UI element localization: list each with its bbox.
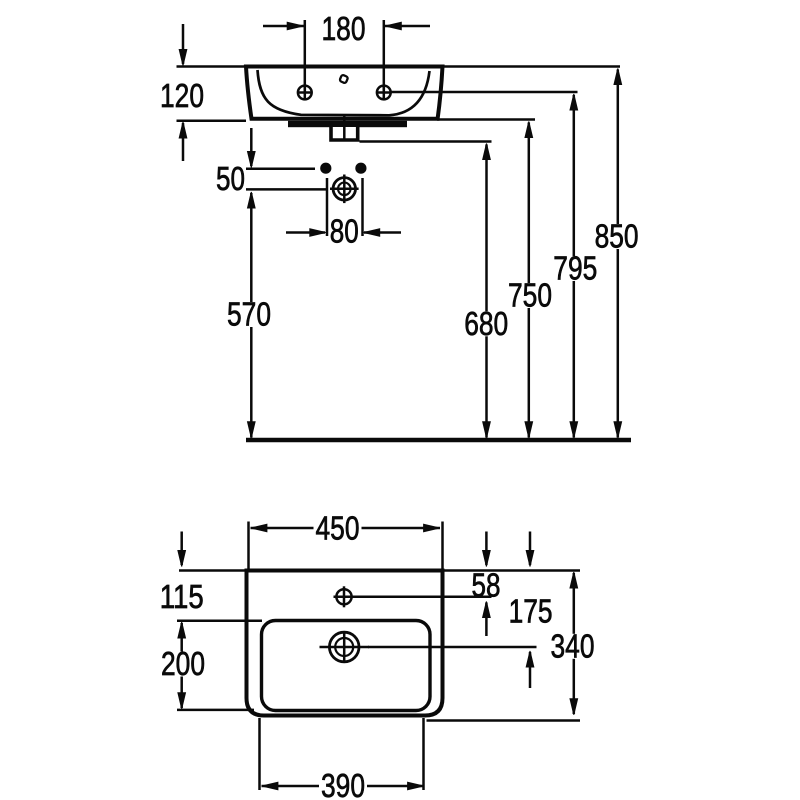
dim 80 label [330,212,359,249]
svg-text:58: 58 [472,566,501,603]
right fixing bolt hole [355,163,366,174]
dim 680 line [483,144,491,438]
dim 750 line [525,122,533,438]
waste drain symbol plan view [320,632,370,664]
svg-text:680: 680 [464,305,508,342]
dim 115 arrow [178,532,186,567]
dim 120 arrow top [179,24,187,66]
dim 180 label [322,10,366,47]
dim 175 arrow top [526,532,534,567]
dim 120 arrow bottom [179,122,187,161]
svg-text:340: 340 [551,627,595,664]
dim 850 extension line [443,65,621,68]
overflow hole [339,75,348,84]
svg-text:390: 390 [321,767,365,800]
dim 58 label [472,566,501,603]
faucet hole plan view [334,586,355,607]
left fixing bolt hole [320,163,331,174]
dim 680 label [462,305,510,342]
dim 50 arrow top [248,128,256,168]
dim 175 arrow bottom [526,651,534,688]
dim 450 extension line left [247,522,250,571]
dim 850 label [593,218,641,255]
waste drain symbol front view [330,175,359,204]
dim 50 extension line top [246,167,315,170]
dim 120 extension line bottom [177,120,247,123]
svg-text:50: 50 [216,160,245,197]
drain outlet box [331,127,358,140]
svg-text:570: 570 [227,296,271,333]
svg-text:795: 795 [553,250,597,287]
drain centre extension line [368,646,537,649]
dim 58 arrow bottom [483,602,491,637]
plan view inner basin outline [262,621,431,711]
svg-text:180: 180 [322,10,366,47]
dim 115 label [160,578,204,615]
dim 750 extension line [437,118,535,121]
dim 750 label [506,277,554,314]
dim 795 line [570,94,578,438]
dim 180 extension line left [304,20,307,90]
floor line [246,438,631,443]
washbasin inner bowl curve [258,70,430,115]
dim 390 extension line right [422,718,425,790]
right tap mounting hole [376,85,391,101]
dim 200 label [159,645,207,682]
washbasin front view outer body [246,67,443,119]
svg-text:115: 115 [160,578,204,615]
dim 680 extension line [360,140,492,143]
svg-text:450: 450 [316,510,360,547]
dim 390 extension line left [258,718,261,790]
top edge extension left [179,569,247,572]
dim 570 label [225,296,273,333]
svg-text:750: 750 [508,277,552,314]
svg-text:175: 175 [509,592,553,629]
dim 180 arrow right [385,22,430,30]
dim 80 arrow left [286,229,326,237]
svg-text:850: 850 [595,218,639,255]
dim 570 line [248,192,256,438]
dim 175 label [509,592,553,629]
bottom edge extension right [427,719,581,722]
outlet centre line [343,114,346,140]
inner bottom extension left [177,709,254,712]
svg-text:200: 200 [161,645,205,682]
dim 795 extension line [391,91,578,94]
dim 390 label [319,767,367,800]
dim 58 arrow top [483,532,491,567]
dim 340 line [570,572,578,715]
dim 200 line [178,622,186,709]
dim 50 label [216,160,245,197]
dim 390 line [262,782,425,790]
dim 450 label [314,510,362,547]
left tap mounting hole [297,85,312,101]
dim 795 label [551,250,599,287]
dim 80 arrow right [364,229,401,237]
dim 50 extension line bottom [246,188,328,191]
bottom ledge band [288,121,407,127]
svg-text:120: 120 [160,77,204,114]
dim 450 extension line right [441,522,444,592]
dim 180 arrow left [263,22,304,30]
svg-text:80: 80 [330,212,359,249]
dim 120 label [160,77,204,114]
dim 120 extension line top [177,65,247,68]
dim 850 line [614,69,622,438]
inner top extension left [177,619,262,622]
dim 340 label [549,627,597,664]
top edge extension right [443,569,581,572]
washbasin plan view outer outline [247,571,443,716]
dim 80 extension line left [326,178,329,236]
dim 450 line [251,524,441,532]
dim 180 extension line right [383,20,386,90]
faucet centre extension line [352,596,492,599]
dim 80 extension line right [361,178,364,236]
